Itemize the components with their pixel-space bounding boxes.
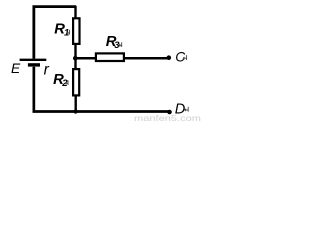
battery E: long positive plate: [20, 59, 47, 61]
wire: branch from junction to R3: [76, 57, 97, 60]
node: terminal C dot: [167, 55, 172, 60]
node: junction dot on bottom wire: [73, 109, 77, 113]
svg-text:C: C: [175, 50, 186, 65]
wire: top wire from battery top to R1 top, and left vertical down to battery + plate: [34, 7, 76, 59]
paragraph mark after R3: [119, 42, 122, 47]
wire: R1 bottom stub to junction: [74, 44, 76, 59]
resistor R2 (box): [73, 69, 79, 95]
paragraph mark after D: [185, 107, 188, 112]
wire: R1 top stub: [74, 6, 76, 19]
wire: from battery negative plate down and along bottom to terminal D: [34, 67, 170, 112]
wire: R2 bottom stub to bottom wire: [74, 95, 76, 112]
resistor R3 (box): [96, 53, 124, 61]
wire: junction to R2 top: [74, 58, 76, 69]
svg-text:manfen5.com: manfen5.com: [134, 113, 201, 123]
node: junction dot between R1 and R2: [73, 56, 78, 61]
wire: from R3 to terminal C: [124, 57, 168, 60]
svg-text:r: r: [44, 62, 50, 79]
battery E: short thick negative plate: [28, 63, 40, 66]
resistor R1 (box): [73, 18, 79, 44]
paragraph mark after C: [183, 55, 186, 60]
paragraph mark after R1: [67, 30, 70, 35]
svg-text:E: E: [11, 61, 21, 76]
paragraph mark after R2: [65, 80, 68, 85]
node: terminal D dot: [167, 110, 172, 115]
